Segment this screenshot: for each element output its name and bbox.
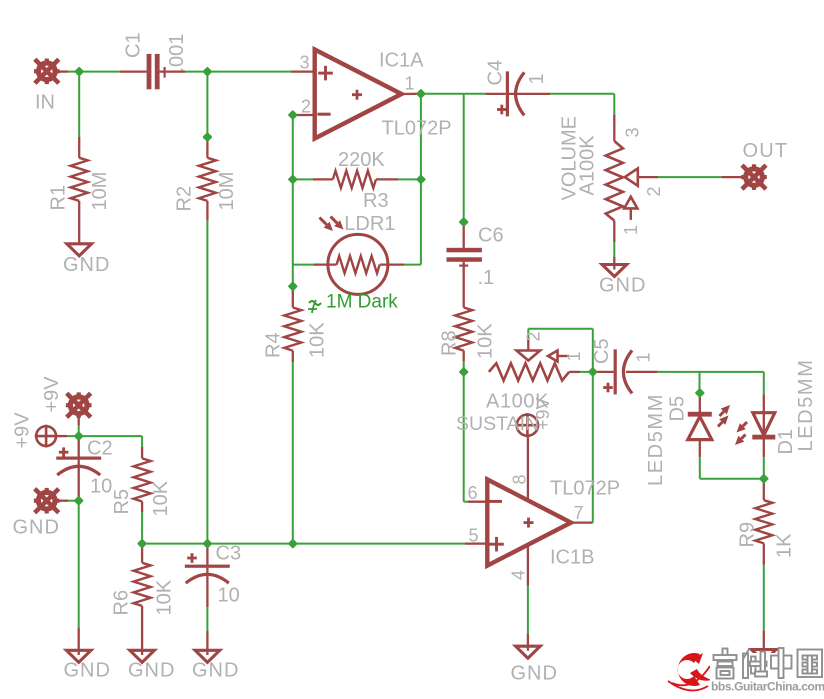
svg-text:C4: C4 bbox=[485, 60, 507, 86]
svg-text:10K: 10K bbox=[154, 579, 176, 615]
svg-text:3: 3 bbox=[623, 127, 643, 137]
svg-text:.001: .001 bbox=[166, 34, 188, 73]
svg-text:D1: D1 bbox=[775, 429, 797, 455]
svg-text:4: 4 bbox=[509, 570, 529, 580]
svg-text:GND: GND bbox=[599, 275, 646, 297]
svg-text:10: 10 bbox=[90, 476, 112, 498]
svg-text:10M: 10M bbox=[216, 172, 238, 211]
svg-text:1K: 1K bbox=[774, 533, 796, 558]
svg-text:D5: D5 bbox=[667, 396, 689, 422]
svg-text:SUSTAIN: SUSTAIN bbox=[456, 413, 539, 435]
svg-text:IN: IN bbox=[35, 92, 55, 114]
svg-text:10M: 10M bbox=[89, 172, 111, 211]
svg-text:1: 1 bbox=[526, 73, 548, 84]
svg-text:220K: 220K bbox=[338, 149, 385, 171]
svg-text:OUT: OUT bbox=[743, 140, 789, 162]
svg-text:10K: 10K bbox=[307, 322, 329, 358]
svg-text:+9V: +9V bbox=[12, 412, 34, 449]
svg-text:GND: GND bbox=[63, 254, 110, 276]
svg-text:C2: C2 bbox=[87, 438, 113, 460]
svg-text:C5: C5 bbox=[591, 338, 613, 364]
svg-text:1: 1 bbox=[564, 351, 584, 361]
svg-text:R8: R8 bbox=[439, 330, 461, 356]
svg-text:TL072P: TL072P bbox=[550, 478, 620, 500]
svg-text:1M Dark: 1M Dark bbox=[326, 292, 398, 313]
svg-text:10K: 10K bbox=[150, 480, 172, 516]
svg-text:LED5MM: LED5MM bbox=[795, 359, 817, 452]
svg-text:bbs.GuitarChina.com: bbs.GuitarChina.com bbox=[711, 680, 824, 694]
svg-text:R4: R4 bbox=[263, 332, 285, 358]
svg-text:C3: C3 bbox=[216, 543, 242, 565]
svg-text:R6: R6 bbox=[111, 590, 133, 616]
svg-text:GND: GND bbox=[128, 660, 175, 682]
svg-text:GND: GND bbox=[192, 660, 239, 682]
svg-text:GND: GND bbox=[511, 663, 558, 685]
svg-text:TL072P: TL072P bbox=[382, 118, 452, 140]
svg-text:8: 8 bbox=[510, 474, 530, 484]
svg-text:6: 6 bbox=[468, 483, 478, 503]
svg-text:2: 2 bbox=[524, 331, 544, 341]
svg-text:R1: R1 bbox=[48, 185, 70, 211]
svg-text:+9V: +9V bbox=[41, 376, 63, 413]
svg-text:C6: C6 bbox=[478, 225, 504, 247]
svg-text:C1: C1 bbox=[123, 32, 145, 58]
svg-text:2: 2 bbox=[301, 97, 311, 117]
svg-text:R2: R2 bbox=[174, 186, 196, 212]
svg-text:R9: R9 bbox=[737, 522, 759, 548]
svg-text:GND: GND bbox=[13, 517, 60, 539]
svg-text:LED5MM: LED5MM bbox=[645, 393, 667, 486]
svg-text:7: 7 bbox=[574, 503, 584, 523]
svg-text:3: 3 bbox=[300, 53, 310, 73]
svg-text:+9V: +9V bbox=[533, 397, 553, 430]
svg-text:5: 5 bbox=[469, 526, 479, 546]
svg-text:1: 1 bbox=[621, 225, 641, 235]
svg-text:10K: 10K bbox=[475, 323, 497, 359]
svg-text:10: 10 bbox=[218, 585, 240, 607]
svg-text:.1: .1 bbox=[478, 267, 495, 289]
svg-text:2: 2 bbox=[644, 186, 664, 196]
svg-text:1: 1 bbox=[405, 74, 415, 94]
svg-text:R5: R5 bbox=[111, 489, 133, 515]
svg-text:LDR1: LDR1 bbox=[344, 213, 395, 235]
svg-text:1: 1 bbox=[634, 352, 654, 362]
svg-text:IC1B: IC1B bbox=[550, 547, 594, 569]
svg-text:IC1A: IC1A bbox=[379, 50, 424, 72]
svg-text:GND: GND bbox=[64, 660, 111, 682]
svg-text:A100K: A100K bbox=[577, 135, 599, 196]
svg-text:R3: R3 bbox=[363, 190, 389, 212]
